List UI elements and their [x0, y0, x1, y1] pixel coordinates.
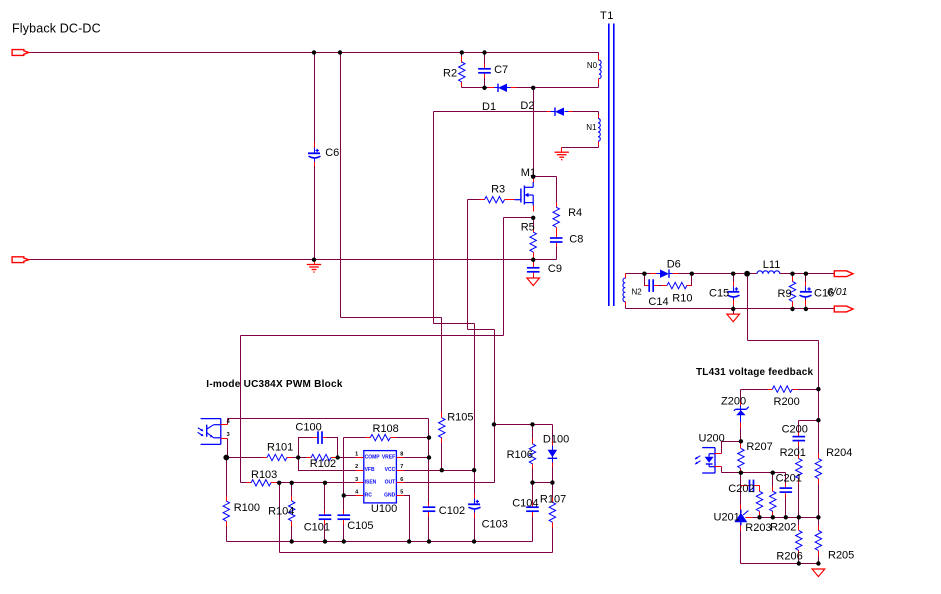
wire CS long row — [241, 335, 504, 337]
wire CS vertical — [503, 218, 505, 336]
label C201 — [776, 473, 802, 485]
wire R5 column — [533, 218, 535, 260]
svg-text:6: 6 — [400, 477, 403, 483]
ground N1 — [555, 148, 569, 160]
label R104 — [268, 505, 294, 517]
op-amp U100 PWM IC — [356, 451, 404, 503]
junction (473,541) — [472, 539, 476, 543]
resistor R200 — [768, 386, 798, 392]
label Z200 — [721, 395, 746, 407]
label C202 — [728, 483, 754, 495]
wire C200 jog — [799, 420, 819, 422]
junction (805,273) — [804, 272, 808, 276]
label R4 — [568, 207, 582, 219]
label C8 — [569, 234, 583, 246]
wire sense down — [818, 341, 820, 390]
svg-text:R102: R102 — [310, 458, 336, 470]
svg-text:8: 8 — [400, 451, 403, 457]
svg-text:I-mode UC384X PWM Block: I-mode UC384X PWM Block — [206, 379, 343, 390]
svg-text:ISEN: ISEN — [365, 480, 377, 486]
svg-text:R107: R107 — [540, 493, 566, 505]
wire R205 column — [818, 518, 820, 564]
junction (441,469) — [440, 468, 444, 472]
port P1 input+ — [12, 50, 29, 56]
junction (343,541) — [342, 539, 346, 543]
wire L11 to port — [780, 273, 835, 275]
label C103 — [482, 518, 508, 530]
junction (785,516) — [784, 515, 788, 519]
resistor R104 — [289, 497, 295, 527]
junction (291,541) — [290, 539, 294, 543]
wire D100 column — [552, 425, 554, 483]
junction (732,273) — [731, 272, 735, 276]
wire N0 bottom lead — [598, 83, 600, 88]
label R3 — [491, 184, 505, 196]
svg-text:D6: D6 — [667, 259, 681, 271]
label R103 — [251, 469, 277, 481]
wire ref rail — [746, 517, 819, 519]
junction (473,469) — [472, 468, 476, 472]
wire C16 column — [805, 274, 807, 309]
svg-text:C9: C9 — [548, 263, 562, 275]
junction (428,541) — [427, 539, 431, 543]
capacitor C101 — [319, 511, 332, 525]
resistor R103 — [247, 480, 277, 486]
label D100 — [543, 434, 569, 446]
capacitor C201 — [780, 484, 793, 498]
wire VREF column — [428, 419, 430, 542]
svg-text:COMP: COMP — [365, 454, 381, 460]
svg-text:3: 3 — [355, 477, 358, 483]
junction (532,482) — [530, 480, 534, 484]
svg-text:5: 5 — [400, 489, 403, 495]
winding N0 — [599, 56, 602, 84]
winding N2 — [623, 274, 626, 306]
label C7 — [494, 64, 508, 76]
svg-text:RC: RC — [365, 492, 373, 498]
svg-text:2: 2 — [355, 464, 358, 470]
resistor R10 — [662, 282, 692, 288]
junction (313,259) — [312, 258, 316, 262]
label C16 — [814, 287, 834, 299]
inductor L11 — [757, 271, 780, 274]
junction (817,388) — [816, 387, 820, 391]
resistor R105 — [439, 413, 445, 443]
junction (732,308) — [731, 307, 735, 311]
label T1 — [600, 10, 614, 22]
label 6/01 — [827, 286, 847, 298]
TL431 U201 — [734, 505, 752, 531]
label R9 — [778, 288, 792, 300]
junction (759,516) — [757, 515, 761, 519]
svg-text:VREF: VREF — [382, 454, 395, 460]
wire aux jog — [434, 323, 475, 325]
svg-text:7: 7 — [400, 464, 403, 470]
wire bottom input rail — [29, 259, 557, 261]
resistor R204 — [815, 454, 821, 484]
U101 pin numbers — [227, 419, 231, 438]
label R207 — [746, 441, 772, 453]
svg-text:C14: C14 — [648, 296, 668, 308]
junction (643,273) — [642, 272, 646, 276]
svg-text:U100: U100 — [371, 503, 397, 515]
svg-text:R201: R201 — [780, 447, 806, 459]
svg-text:U201: U201 — [714, 512, 740, 524]
wire Vin vertical — [340, 53, 342, 318]
wire COMP rail — [227, 457, 356, 459]
svg-text:R206: R206 — [776, 550, 802, 562]
junction (324,541) — [323, 539, 327, 543]
wire PWM gnd rail — [227, 541, 533, 543]
wire slope mid rail — [533, 482, 553, 484]
wire aux to VCC — [474, 324, 476, 471]
svg-text:C104: C104 — [512, 498, 538, 510]
junction (772,516) — [771, 515, 775, 519]
ground C6 — [307, 260, 321, 273]
svg-text:6/01: 6/01 — [827, 286, 847, 298]
svg-text:R200: R200 — [774, 396, 800, 408]
wire C6 column — [314, 53, 316, 260]
junction (297,457) — [296, 455, 300, 459]
capacitor C8 — [550, 233, 563, 247]
wire C200 R201 column — [798, 421, 800, 518]
svg-text:R100: R100 — [234, 502, 260, 514]
port P2 input- — [12, 257, 29, 263]
junction (798,516) — [797, 515, 801, 519]
label R102 — [310, 458, 336, 470]
label C14 — [648, 296, 668, 308]
label C101 — [304, 521, 330, 533]
wire R107 column — [552, 483, 554, 553]
zener Z200 — [734, 401, 749, 428]
junction (225,457) — [223, 455, 229, 461]
svg-text:R104: R104 — [268, 505, 294, 517]
junction (428,457) — [427, 455, 431, 459]
junction (532,259) — [531, 258, 535, 262]
diode D100 — [548, 441, 558, 467]
svg-text:Flyback DC-DC: Flyback DC-DC — [12, 21, 101, 35]
label R201 — [780, 447, 806, 459]
label C104 — [512, 498, 538, 510]
label R205 — [828, 550, 854, 562]
junction (484,87) — [482, 86, 486, 90]
label R206 — [776, 550, 802, 562]
U100 pin numbers — [355, 451, 403, 495]
svg-text:U200: U200 — [699, 433, 725, 445]
junction (343,495) — [342, 493, 346, 497]
label R204 — [826, 447, 852, 459]
junction (817,516) — [816, 515, 820, 519]
svg-text:R3: R3 — [491, 184, 505, 196]
label R108 — [373, 423, 399, 435]
junction (313,52) — [312, 50, 316, 54]
wire R9 column — [792, 274, 794, 309]
wire OUT pin6 rail — [404, 482, 495, 484]
wire gate row — [468, 199, 509, 201]
junction (746,273) — [744, 271, 750, 277]
svg-text:R101: R101 — [267, 441, 293, 453]
wire C101 column — [324, 483, 326, 542]
resistor R3 — [480, 197, 510, 203]
wire R4 C8 column — [556, 177, 558, 260]
svg-text:OUT: OUT — [385, 480, 396, 486]
svg-text:C100: C100 — [295, 421, 321, 433]
junction (817,419) — [816, 418, 820, 422]
junction (740,472) — [739, 471, 743, 475]
svg-text:T1: T1 — [600, 10, 614, 22]
wire R106 column — [532, 425, 534, 483]
capacitor C200 — [793, 432, 806, 446]
wire R200 row — [741, 389, 819, 391]
svg-text:D2: D2 — [520, 100, 534, 112]
junction (428,437) — [427, 435, 431, 439]
junction (532,176) — [531, 175, 535, 179]
label R100 — [234, 502, 260, 514]
label D2 — [520, 100, 534, 112]
svg-text:D1: D1 — [482, 101, 496, 113]
label R107 — [540, 493, 566, 505]
label C100 — [295, 421, 321, 433]
svg-text:VCC: VCC — [385, 467, 396, 473]
wire opto pin4 lead — [227, 419, 229, 425]
label N1 — [586, 123, 597, 132]
svg-text:R205: R205 — [828, 550, 854, 562]
svg-text:N1: N1 — [586, 123, 597, 132]
wire cathode rail — [722, 467, 786, 473]
svg-text:3: 3 — [227, 432, 230, 438]
resistor R100 — [223, 497, 229, 527]
svg-text:M1: M1 — [521, 167, 536, 179]
label C102 — [439, 505, 465, 517]
wire D2 aux row — [434, 111, 599, 113]
capacitor C7 — [478, 64, 491, 78]
wire D6 snubber loop — [645, 274, 692, 286]
svg-text:R103: R103 — [251, 469, 277, 481]
wire Vin to R105 — [341, 317, 442, 319]
wire N1 top lead — [598, 112, 600, 117]
svg-text:VFB: VFB — [365, 467, 375, 473]
wire C201 column — [785, 473, 787, 518]
svg-text:TL431 voltage feedback: TL431 voltage feedback — [696, 367, 813, 378]
wire pin5 gnd — [404, 496, 410, 542]
label R202 — [770, 521, 796, 533]
port P4 output- — [834, 306, 853, 312]
wire U200 anode row — [722, 442, 741, 454]
junction (792,308) — [790, 307, 794, 311]
wire N1 bottom lead — [562, 144, 599, 148]
svg-text:D100: D100 — [543, 434, 569, 446]
capacitor C16 — [800, 282, 812, 306]
diode D6 — [651, 270, 679, 278]
wire R108 row — [344, 437, 429, 439]
wire N2 top lead — [625, 274, 627, 278]
wire gate vertical — [467, 200, 469, 330]
wire CS pin3 rail — [241, 482, 356, 484]
svg-text:4: 4 — [227, 419, 231, 425]
label C6 — [325, 147, 339, 159]
wire tl431 bottom rail — [741, 563, 819, 565]
label Flyback DC-DC — [12, 21, 101, 35]
junction (792,273) — [790, 272, 794, 276]
svg-text:C105: C105 — [347, 520, 373, 532]
wire CS to R103 — [240, 336, 242, 483]
capacitor C100 — [313, 431, 327, 444]
label C200 — [782, 424, 808, 436]
junction (551,482) — [550, 480, 554, 484]
wire R105 column — [441, 318, 443, 471]
resistor R206 — [796, 526, 802, 556]
wire secondary bottom rail — [626, 308, 835, 310]
wire R202 column — [772, 473, 774, 518]
wire slope drop — [279, 483, 281, 553]
label D6 — [667, 259, 681, 271]
resistor R205 — [815, 526, 821, 556]
label R10 — [672, 293, 692, 305]
optocoupler U101 phototransistor — [198, 419, 228, 445]
capacitor C104 — [526, 503, 539, 517]
svg-text:C15: C15 — [709, 288, 729, 300]
junction (484,52) — [482, 50, 486, 54]
label N0 — [587, 61, 598, 70]
label I-mode UC384X PWM Block — [206, 379, 343, 390]
junction (324,482) — [323, 481, 327, 485]
svg-text:C101: C101 — [304, 521, 330, 533]
junction (408,541) — [407, 539, 411, 543]
svg-text:C201: C201 — [776, 473, 802, 485]
wire C104 column — [532, 483, 534, 542]
label R200 — [774, 396, 800, 408]
wire secondary top rail — [626, 273, 757, 275]
wire opto pin3 lead — [227, 439, 229, 458]
wire slope top row — [495, 424, 553, 426]
svg-text:R105: R105 — [447, 412, 473, 424]
transformer T1 core — [609, 24, 614, 307]
wire CS row — [504, 217, 534, 219]
label C105 — [347, 520, 373, 532]
svg-text:Z200: Z200 — [721, 395, 746, 407]
junction (532,423) — [530, 422, 534, 426]
svg-text:GND: GND — [384, 492, 396, 498]
junction (772,472) — [771, 471, 775, 475]
optocoupler U200 — [695, 448, 722, 473]
wire snubber bottom rail — [462, 87, 599, 89]
resistor R4 — [553, 203, 559, 233]
svg-text:R108: R108 — [373, 423, 399, 435]
wire R203 column — [759, 486, 761, 518]
resistor R207 — [738, 444, 744, 474]
svg-text:C103: C103 — [482, 518, 508, 530]
resistor R102 — [307, 454, 337, 460]
diode D1 — [489, 84, 517, 92]
svg-text:R2: R2 — [443, 68, 457, 80]
svg-text:C6: C6 — [325, 147, 339, 159]
transistor M1 — [509, 177, 534, 212]
label N2 — [632, 288, 643, 297]
label R2 — [443, 68, 457, 80]
ground C9 — [527, 278, 540, 286]
svg-text:R106: R106 — [507, 449, 533, 461]
wire C7 column — [484, 53, 486, 88]
port P3 output+ — [834, 271, 853, 277]
resistor R9 — [789, 277, 795, 307]
label R106 — [507, 449, 533, 461]
label C9 — [548, 263, 562, 275]
resistor R108 — [366, 434, 396, 440]
wire sense vertical — [747, 274, 749, 341]
svg-text:R202: R202 — [770, 521, 796, 533]
svg-text:N0: N0 — [587, 61, 598, 70]
label R5 — [521, 222, 535, 234]
wire Z200 column — [740, 390, 742, 442]
wire R2 column — [461, 53, 463, 88]
resistor R101 — [263, 454, 293, 460]
junction (291,482) — [290, 481, 294, 485]
svg-text:C202: C202 — [728, 483, 754, 495]
label R203 — [745, 522, 771, 534]
label U200 — [699, 433, 725, 445]
junction (740,440) — [739, 439, 743, 443]
wire opto collector row — [228, 418, 429, 420]
junction (805,308) — [804, 307, 808, 311]
junction (532,217) — [531, 216, 535, 220]
wire C15 column — [733, 274, 735, 315]
junction (461,52) — [460, 50, 464, 54]
label R105 — [447, 412, 473, 424]
svg-text:C8: C8 — [569, 234, 583, 246]
resistor R107 — [549, 498, 555, 528]
wire sense jog — [748, 340, 819, 342]
capacitor C6 — [308, 143, 321, 167]
wire R100 column — [226, 458, 228, 542]
resistor R2 — [459, 57, 465, 87]
svg-text:1: 1 — [355, 451, 358, 457]
wire VFB jog — [299, 458, 356, 471]
svg-text:R9: R9 — [778, 288, 792, 300]
junction (817,563) — [816, 561, 820, 565]
resistor R203 — [756, 487, 762, 517]
svg-text:C200: C200 — [782, 424, 808, 436]
wire aux vertical — [433, 112, 435, 324]
label U201 — [714, 512, 740, 524]
wire drain to R4 — [534, 176, 557, 178]
svg-text:L11: L11 — [763, 259, 781, 271]
junction (798,563) — [797, 561, 801, 565]
capacitor C102 — [423, 503, 436, 517]
resistor R201 — [796, 454, 802, 484]
wire gate to OUT — [494, 330, 496, 483]
wire gate jog — [468, 329, 495, 331]
wire N2 bottom lead — [625, 303, 627, 309]
label TL431 voltage feedback — [696, 367, 813, 378]
wire top input rail — [29, 52, 599, 54]
capacitor C14 — [645, 279, 659, 292]
capacitor C105 — [338, 511, 351, 525]
svg-text:R204: R204 — [826, 447, 852, 459]
label D1 — [482, 101, 496, 113]
winding N1 — [598, 115, 600, 146]
wire R204 column — [818, 390, 820, 518]
wire C9 column — [533, 260, 535, 278]
resistor R106 — [529, 439, 535, 469]
wire R207 column — [740, 442, 742, 473]
svg-text:4: 4 — [355, 489, 359, 495]
ground TL431 — [812, 569, 825, 577]
wire pin8 wire — [404, 457, 429, 459]
junction (532,87) — [531, 86, 535, 90]
wire C100 branch — [299, 438, 338, 458]
junction (339,52) — [338, 50, 342, 54]
wire R206 column — [798, 518, 800, 564]
